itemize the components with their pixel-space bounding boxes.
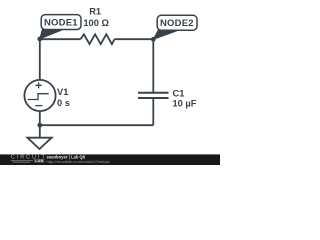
capacitor C1 xyxy=(138,93,169,98)
wire: V1 bottom to bottom rail xyxy=(39,111,41,125)
svg-text:100 Ω: 100 Ω xyxy=(83,18,109,28)
minus sign xyxy=(35,105,42,107)
svg-text:LAB: LAB xyxy=(35,159,43,163)
node NODE2 callout box xyxy=(157,15,197,30)
wire: right vertical lower (C1 bottom plate to bottom rail) xyxy=(152,98,154,125)
junction dot at node2 corner xyxy=(151,37,156,42)
svg-text:NODE2: NODE2 xyxy=(160,18,194,29)
ground xyxy=(27,125,51,149)
node NODE1 callout box xyxy=(41,15,81,30)
footer logo LAB xyxy=(34,159,45,163)
footer logo wire motif xyxy=(11,161,33,163)
svg-text:C1: C1 xyxy=(173,88,185,98)
node NODE2 callout tail xyxy=(153,30,178,40)
footer bar xyxy=(0,154,220,165)
plus sign xyxy=(36,82,42,88)
wire: top rail right segment (resistor to node2 corner) xyxy=(115,38,154,40)
svg-text:http://circuitlab.com/c/ckkd47: http://circuitlab.com/c/ckkd47tmkqst xyxy=(47,159,111,164)
voltage source V1 xyxy=(24,80,55,111)
svg-text:V1: V1 xyxy=(57,87,68,97)
wire: left vertical (node1 corner down to V1 top) xyxy=(39,39,41,80)
node NODE1 callout tail xyxy=(40,29,63,39)
step waveform xyxy=(28,94,49,100)
wire: right vertical upper (node2 corner down to C1 top plate) xyxy=(152,39,154,92)
wire: top rail left segment (node1 corner to resistor) xyxy=(40,38,81,40)
wire: bottom rail xyxy=(40,124,154,126)
junction dot at ground tap xyxy=(37,123,42,128)
svg-text:NODE1: NODE1 xyxy=(44,17,78,28)
svg-text:0 s: 0 s xyxy=(57,98,70,108)
junction dot at node1 corner xyxy=(37,37,42,42)
svg-text:R1: R1 xyxy=(89,7,101,17)
svg-text:10 µF: 10 µF xyxy=(173,99,197,109)
resistor R1 xyxy=(81,34,115,44)
